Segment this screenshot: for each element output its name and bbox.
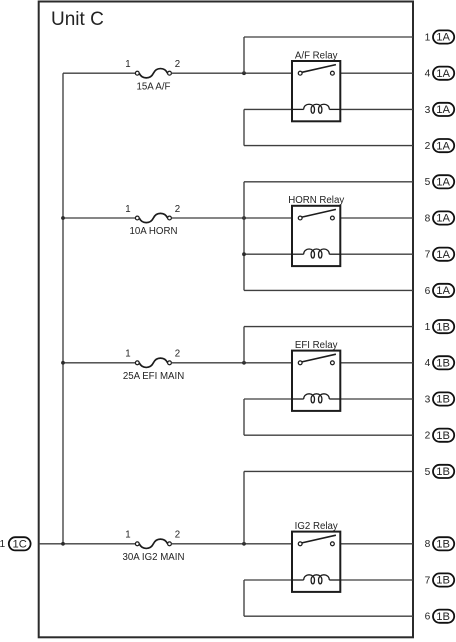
wire: drop from coil lead down to pin 2 row xyxy=(243,399,245,435)
svg-text:3: 3 xyxy=(425,394,431,405)
wire: fuse F3 pin 2 to relay coil/contact feed node xyxy=(171,362,292,364)
svg-text:5: 5 xyxy=(425,177,431,188)
pin 1 connector 1A xyxy=(425,30,455,43)
relay R2 HORN Relay xyxy=(292,206,340,266)
svg-text:8: 8 xyxy=(425,213,431,224)
svg-text:1A: 1A xyxy=(436,140,450,152)
svg-text:6: 6 xyxy=(425,612,431,623)
svg-text:1B: 1B xyxy=(436,394,450,406)
wire: drop from coil lead down to pin 2 row xyxy=(243,109,245,145)
wire: drop from coil lead down to pin 6 row xyxy=(243,580,245,616)
svg-text:1B: 1B xyxy=(436,539,450,551)
junction: bus to fuse F4 feed xyxy=(61,542,65,546)
pin 2 connector 1A xyxy=(425,139,455,152)
pin 3 connector 1B xyxy=(425,392,455,405)
svg-text:1A: 1A xyxy=(436,32,450,44)
wire: bus to fuse F1 pin 1 xyxy=(63,72,135,74)
svg-text:1A: 1A xyxy=(436,249,450,261)
junction: node feeding relay R3 contact and top pin xyxy=(242,361,246,365)
svg-text:1A: 1A xyxy=(436,177,450,189)
pin 8 connector 1B xyxy=(425,537,455,550)
svg-text:4: 4 xyxy=(425,69,431,80)
svg-text:1B: 1B xyxy=(436,611,450,623)
fuse F3 25A EFI MAIN xyxy=(135,358,171,367)
pin 6 connector 1A xyxy=(425,284,455,297)
wire: relay R1 coil left lead xyxy=(244,108,292,110)
wire: bottom branch to pin 2 (1A) xyxy=(244,145,413,147)
svg-text:1B: 1B xyxy=(436,575,450,587)
wire: relay R4 coil right lead to pin 7 (1B) xyxy=(340,579,413,581)
svg-text:1: 1 xyxy=(125,349,130,360)
pin 5 connector 1A xyxy=(425,175,455,188)
wire: bottom branch to pin 2 (1B) xyxy=(244,434,413,436)
svg-text:EFI Relay: EFI Relay xyxy=(295,340,338,351)
svg-text:1C: 1C xyxy=(13,539,27,551)
wire: fuse F1 pin 2 to relay coil/contact feed node xyxy=(171,72,292,74)
wire: bus tap to fuse F2 pin 1 xyxy=(63,217,135,219)
pin 4 connector 1B xyxy=(425,356,455,369)
svg-text:15A A/F: 15A A/F xyxy=(137,81,171,92)
svg-text:1A: 1A xyxy=(436,285,450,297)
wire: riser from feed node up to pin 5 row xyxy=(243,471,245,543)
wire: top branch to pin 1 (1A) xyxy=(244,36,413,38)
svg-text:Unit C: Unit C xyxy=(51,9,104,30)
wire: relay R2 coil left lead xyxy=(244,253,292,255)
wire: top branch to pin 5 (1B) xyxy=(244,470,413,472)
wire: relay R2 contact output to pin 8 (1A) xyxy=(340,217,413,219)
fuse F1 15A A/F xyxy=(135,69,171,78)
bus wire: main feed vertical bus xyxy=(62,73,64,544)
svg-text:2: 2 xyxy=(425,431,431,442)
wire: relay R1 coil right lead to pin 3 (1A) xyxy=(340,108,413,110)
wire: riser from feed node up to pin 1 row xyxy=(243,327,245,363)
relay R4 IG2 Relay xyxy=(292,532,340,592)
svg-text:1: 1 xyxy=(125,59,130,70)
wire: relay R4 coil left lead xyxy=(244,579,292,581)
svg-text:2: 2 xyxy=(175,204,180,215)
svg-text:10A HORN: 10A HORN xyxy=(130,226,178,237)
svg-text:2: 2 xyxy=(175,59,180,70)
junction: bus tap for fuse F2 xyxy=(61,216,65,220)
svg-text:1B: 1B xyxy=(436,321,450,333)
svg-text:1: 1 xyxy=(125,204,130,215)
pin 7 connector 1A xyxy=(425,248,455,261)
fuse F2 10A HORN xyxy=(135,213,171,222)
pin 6 connector 1B xyxy=(425,610,455,623)
junction: node feeding relay R4 contact and top pin xyxy=(242,542,246,546)
svg-text:1A: 1A xyxy=(436,104,450,116)
wire: top branch to pin 5 (1A) xyxy=(244,181,413,183)
wire: 1C feed through frame to fuse F4 pin 1 xyxy=(39,543,136,545)
svg-text:6: 6 xyxy=(425,286,431,297)
svg-text:7: 7 xyxy=(425,575,431,586)
svg-text:25A EFI MAIN: 25A EFI MAIN xyxy=(123,371,184,382)
pin 5 connector 1B xyxy=(425,465,455,478)
wire: relay R4 contact output to pin 8 (1B) xyxy=(340,543,413,545)
fuse F4 30A IG2 MAIN xyxy=(135,539,171,548)
wire: bus tap to fuse F3 pin 1 xyxy=(63,362,135,364)
svg-text:1: 1 xyxy=(425,322,431,333)
svg-text:2: 2 xyxy=(175,530,180,541)
svg-text:1: 1 xyxy=(425,32,431,43)
svg-text:2: 2 xyxy=(425,141,431,152)
wire: relay R1 contact output to pin 4 (1A) xyxy=(340,72,413,74)
svg-text:A/F Relay: A/F Relay xyxy=(295,50,338,61)
svg-text:IG2 Relay: IG2 Relay xyxy=(295,521,338,532)
pin 8 connector 1A xyxy=(425,211,455,224)
wire: relay R2 coil right lead to pin 7 (1A) xyxy=(340,253,413,255)
svg-text:7: 7 xyxy=(425,250,431,261)
junction: node feeding relay R1 contact and top pin xyxy=(242,71,246,75)
pin 4 connector 1A xyxy=(425,67,455,80)
wire: relay R3 coil right lead to pin 3 (1B) xyxy=(340,398,413,400)
svg-text:HORN Relay: HORN Relay xyxy=(288,195,344,206)
svg-text:2: 2 xyxy=(175,349,180,360)
svg-text:30A IG2 MAIN: 30A IG2 MAIN xyxy=(123,552,185,563)
svg-text:1B: 1B xyxy=(436,358,450,370)
svg-text:1: 1 xyxy=(0,539,6,550)
svg-text:1A: 1A xyxy=(436,213,450,225)
svg-text:3: 3 xyxy=(425,105,431,116)
wire: riser from feed node up to pin 5 row xyxy=(243,182,245,291)
junction: bus tap for fuse F3 xyxy=(61,361,65,365)
wire: bottom branch to pin 6 (1A) xyxy=(244,289,413,291)
wire: relay R3 coil left lead xyxy=(244,398,292,400)
pin 3 connector 1A xyxy=(425,103,455,116)
wire: bottom branch to pin 6 (1B) xyxy=(244,615,413,617)
wire: fuse F2 pin 2 to relay coil/contact feed node xyxy=(171,217,292,219)
wire: fuse F4 pin 2 to relay coil/contact feed node xyxy=(171,543,292,545)
wire: top branch to pin 1 (1B) xyxy=(244,326,413,328)
svg-text:8: 8 xyxy=(425,539,431,550)
pin 7 connector 1B xyxy=(425,573,455,586)
svg-text:4: 4 xyxy=(425,358,431,369)
relay R3 EFI Relay xyxy=(292,351,340,411)
pin 1 connector 1C xyxy=(0,537,31,550)
wire: relay R3 contact output to pin 4 (1B) xyxy=(340,362,413,364)
relay R1 A/F Relay xyxy=(292,61,340,121)
pin 2 connector 1B xyxy=(425,429,455,442)
svg-text:1B: 1B xyxy=(436,466,450,478)
svg-text:1A: 1A xyxy=(436,68,450,80)
pin 1 connector 1B xyxy=(425,320,455,333)
svg-text:5: 5 xyxy=(425,467,431,478)
wire: riser from feed node up to pin 1 row xyxy=(243,37,245,73)
junction: node feeding relay R2 contact and top pin xyxy=(242,216,246,220)
svg-text:1B: 1B xyxy=(436,430,450,442)
junction: coil left lead on bus riser xyxy=(242,252,246,256)
svg-text:1: 1 xyxy=(125,530,130,541)
